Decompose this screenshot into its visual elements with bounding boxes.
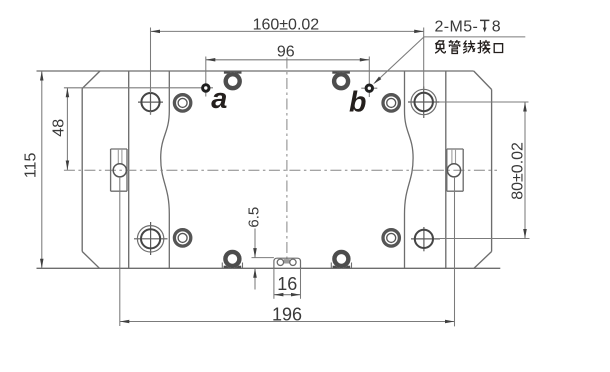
left mounting slot outline	[111, 148, 127, 150]
annotation text 管 (chinese)	[449, 41, 460, 54]
edge screw hole bottom-left	[224, 266, 242, 268]
counterbore hole upper-right	[381, 93, 401, 113]
mounting hole top-right (counterbored) crosshair	[411, 89, 436, 114]
wire bottom edge of body (with 115 extension)	[37, 267, 501, 269]
dimension 80±0.02	[439, 101, 528, 103]
wire left waist curve	[161, 71, 170, 268]
svg-text:16: 16	[277, 274, 297, 294]
boss hole left	[277, 259, 283, 265]
dimension 160±0.02	[150, 28, 152, 94]
mounting hole top-left crosshair	[141, 93, 159, 111]
port a	[203, 85, 209, 91]
annotation text 接 (chinese)	[478, 41, 490, 54]
wire bottom-right chamfer	[474, 252, 492, 269]
wire left end-cap contour	[128, 71, 130, 268]
port b	[366, 85, 372, 91]
svg-text:115: 115	[22, 153, 39, 179]
svg-text:80±0.02: 80±0.02	[510, 142, 527, 200]
wire top-right chamfer	[474, 71, 492, 90]
vertical centerline	[286, 58, 288, 262]
counterbore hole lower-left	[173, 228, 193, 248]
wire right waist curve	[405, 71, 414, 268]
svg-text:2-M5-: 2-M5-	[435, 19, 479, 36]
dimension 6.5	[252, 257, 274, 259]
counterbore hole upper-left	[173, 93, 193, 113]
wire top-left chamfer	[82, 71, 100, 89]
annotation text 线 (chinese)	[464, 41, 475, 53]
mounting hole bottom-left (counterbored) crosshair	[137, 226, 163, 252]
annotation text 免 (chinese)	[436, 41, 446, 53]
dimension 48	[66, 88, 68, 170]
wire left edge of body	[81, 89, 83, 252]
edge screw hole top-right	[332, 71, 350, 73]
edge screw hole bottom-right	[333, 266, 351, 268]
counterbore hole lower-right	[381, 228, 401, 248]
port b crosshair vertical / 96 extension right	[368, 57, 370, 98]
svg-text:96: 96	[277, 44, 295, 61]
svg-text:6.5: 6.5	[245, 207, 262, 228]
svg-text:196: 196	[272, 305, 302, 325]
dimension 16	[273, 268, 275, 299]
right slot hole	[447, 164, 460, 177]
leader line to port b	[424, 36, 525, 38]
left slot hole	[113, 164, 126, 177]
boss hole right	[290, 259, 296, 265]
svg-text:48: 48	[51, 119, 68, 137]
wire right edge of body	[491, 90, 493, 252]
wire bottom-left chamfer	[82, 252, 99, 269]
edge screw hole top-left	[224, 71, 242, 73]
port b crosshair horizontal	[361, 87, 377, 89]
port a crosshair vertical / 96 extension left	[205, 57, 207, 97]
horizontal centerline	[64, 169, 497, 171]
port a row line / 48 extension	[64, 87, 213, 89]
dimension 196	[119, 177, 121, 326]
dimension 115	[41, 71, 43, 268]
svg-text:b: b	[349, 86, 366, 118]
svg-text:a: a	[211, 83, 227, 115]
mounting hole bottom-right crosshair	[415, 230, 433, 248]
wire top edge of body (with 115 extension)	[37, 70, 474, 72]
annotation text 口 (chinese)	[494, 44, 502, 53]
boss shading	[284, 259, 290, 263]
wire right end-cap contour	[445, 71, 447, 268]
svg-text:8: 8	[492, 19, 501, 36]
right mounting slot outline	[447, 148, 463, 150]
svg-text:160±0.02: 160±0.02	[253, 16, 320, 33]
bottom center boss outline	[274, 258, 301, 268]
dimension 96	[206, 59, 369, 61]
